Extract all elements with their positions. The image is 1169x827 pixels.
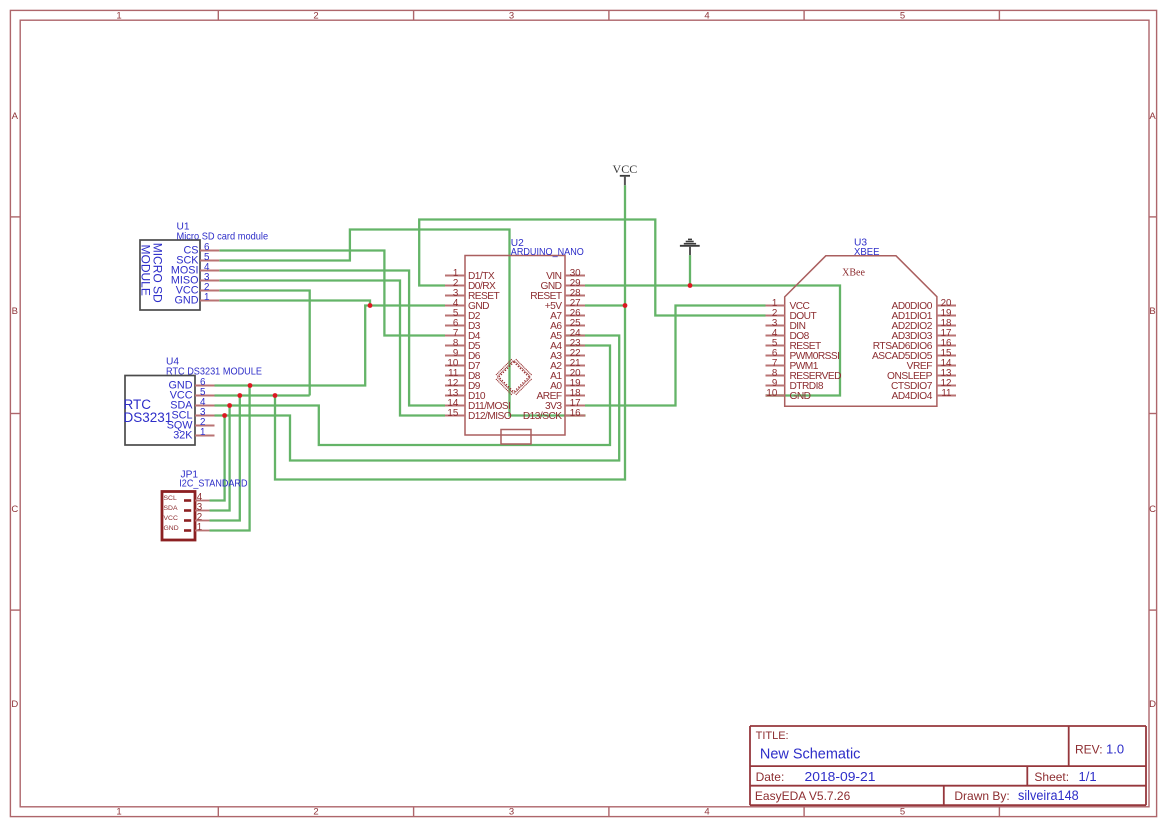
svg-text:4: 4 xyxy=(704,807,709,818)
svg-text:1: 1 xyxy=(197,522,202,533)
svg-text:TITLE:: TITLE: xyxy=(756,730,789,742)
svg-text:SDA: SDA xyxy=(164,505,178,512)
svg-text:15: 15 xyxy=(447,408,458,419)
svg-text:32K: 32K xyxy=(173,429,193,441)
svg-text:1/1: 1/1 xyxy=(1079,769,1097,784)
svg-text:1.0: 1.0 xyxy=(1106,742,1124,757)
svg-text:A: A xyxy=(1149,111,1156,122)
svg-text:SCL: SCL xyxy=(164,495,177,502)
svg-text:11: 11 xyxy=(941,388,951,399)
svg-text:4: 4 xyxy=(704,11,709,22)
svg-text:ARDUINO_NANO: ARDUINO_NANO xyxy=(511,247,584,258)
svg-text:VCC: VCC xyxy=(613,162,638,176)
svg-text:1: 1 xyxy=(116,11,121,22)
svg-text:A: A xyxy=(12,111,19,122)
svg-text:D: D xyxy=(11,699,18,710)
svg-text:silveira148: silveira148 xyxy=(1018,788,1079,803)
svg-text:Micro SD card module: Micro SD card module xyxy=(177,231,269,242)
svg-text:GND: GND xyxy=(790,391,811,402)
svg-text:GND: GND xyxy=(175,294,199,306)
svg-text:1: 1 xyxy=(204,292,209,303)
svg-text:C: C xyxy=(11,504,18,515)
svg-text:RTC DS3231 MODULE: RTC DS3231 MODULE xyxy=(166,366,262,377)
svg-text:3: 3 xyxy=(509,11,514,22)
svg-text:C: C xyxy=(1149,504,1156,515)
svg-text:D: D xyxy=(1149,699,1156,710)
svg-text:VCC: VCC xyxy=(164,515,178,522)
svg-text:5: 5 xyxy=(900,807,905,818)
svg-text:D12/MISO: D12/MISO xyxy=(468,411,512,422)
svg-text:10: 10 xyxy=(766,388,777,399)
svg-text:DS3231: DS3231 xyxy=(124,410,173,425)
svg-text:Date:: Date: xyxy=(756,770,785,784)
svg-text:Drawn By:: Drawn By: xyxy=(954,789,1009,803)
svg-text:New Schematic: New Schematic xyxy=(760,746,861,763)
svg-text:2: 2 xyxy=(313,807,318,818)
svg-text:5: 5 xyxy=(900,11,905,22)
svg-text:3: 3 xyxy=(509,807,514,818)
svg-text:2018-09-21: 2018-09-21 xyxy=(805,769,876,784)
svg-text:I2C_STANDARD: I2C_STANDARD xyxy=(179,479,247,490)
svg-text:16: 16 xyxy=(570,408,581,419)
svg-text:B: B xyxy=(12,306,18,317)
svg-text:1: 1 xyxy=(116,807,121,818)
svg-text:XBee: XBee xyxy=(842,268,865,279)
svg-text:MODULE: MODULE xyxy=(139,245,153,296)
svg-text:GND: GND xyxy=(164,525,179,532)
svg-text:B: B xyxy=(1149,306,1155,317)
svg-text:REV:: REV: xyxy=(1075,743,1103,757)
svg-text:1: 1 xyxy=(200,427,205,438)
svg-text:AD4DIO4: AD4DIO4 xyxy=(892,391,933,402)
svg-text:Sheet:: Sheet: xyxy=(1034,770,1069,784)
svg-text:EasyEDA V5.7.26: EasyEDA V5.7.26 xyxy=(755,789,851,803)
svg-text:2: 2 xyxy=(313,11,318,22)
svg-text:D13/SCK: D13/SCK xyxy=(523,411,562,422)
svg-text:XBEE: XBEE xyxy=(854,247,880,258)
